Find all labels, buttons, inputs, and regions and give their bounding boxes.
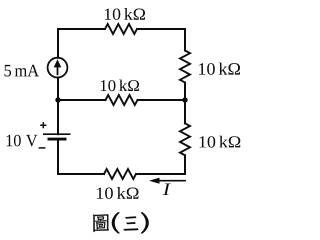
wire bottom-left corner to bottom resistor	[58, 173, 104, 175]
current I arrowhead pointing left	[149, 178, 159, 184]
current I arrow shaft	[159, 180, 187, 182]
label 10 V battery	[7, 135, 38, 147]
wire left rail battery to bottom-left corner	[57, 139, 59, 174]
junction node dot left	[55, 97, 60, 102]
wire right rail R2 to bottom-right corner	[184, 155, 186, 174]
wire right rail R1 to R2 through middle node	[184, 83, 186, 124]
label 10kΩ right resistor R1	[199, 63, 240, 75]
wire middle left node to middle resistor	[58, 99, 106, 101]
label I current	[163, 183, 171, 195]
junction node dot right	[182, 97, 187, 102]
resistor 10k R2 (right vertical zigzag)	[180, 123, 190, 155]
battery 10V long plate	[43, 133, 71, 135]
caption glyph （	[112, 212, 119, 233]
wire top resistor to top-right corner	[137, 28, 185, 30]
label 10kΩ top resistor	[105, 8, 145, 20]
wire left rail current source to battery	[57, 78, 59, 135]
wire right rail top corner to R1	[184, 29, 186, 51]
current source arrowhead	[54, 59, 62, 67]
wire top-left to top resistor	[58, 28, 105, 30]
resistor 10k top (horizontal zigzag)	[105, 24, 137, 34]
label 10kΩ right resistor R2	[200, 136, 241, 148]
battery 10V short thick plate	[48, 138, 67, 141]
caption glyph ）	[141, 212, 148, 233]
resistor 10k bottom (horizontal zigzag)	[104, 169, 136, 179]
battery plus sign	[40, 122, 46, 128]
label 5 mA current source	[5, 65, 40, 77]
wire bottom resistor to bottom-right corner	[136, 173, 185, 175]
label 10kΩ bottom resistor	[97, 187, 139, 199]
label 10kΩ middle resistor	[101, 80, 139, 92]
current source arrow shaft	[57, 66, 59, 76]
battery minus sign	[39, 147, 46, 149]
caption glyph 三	[124, 216, 139, 230]
current source 5mA circle	[48, 58, 68, 78]
wire middle resistor to right node	[138, 99, 186, 101]
resistor 10k R1 (right vertical zigzag)	[180, 51, 190, 83]
wire left rail top corner to current source	[57, 29, 59, 58]
caption glyph 圖	[93, 214, 109, 232]
resistor 10k middle (horizontal zigzag)	[106, 95, 138, 105]
